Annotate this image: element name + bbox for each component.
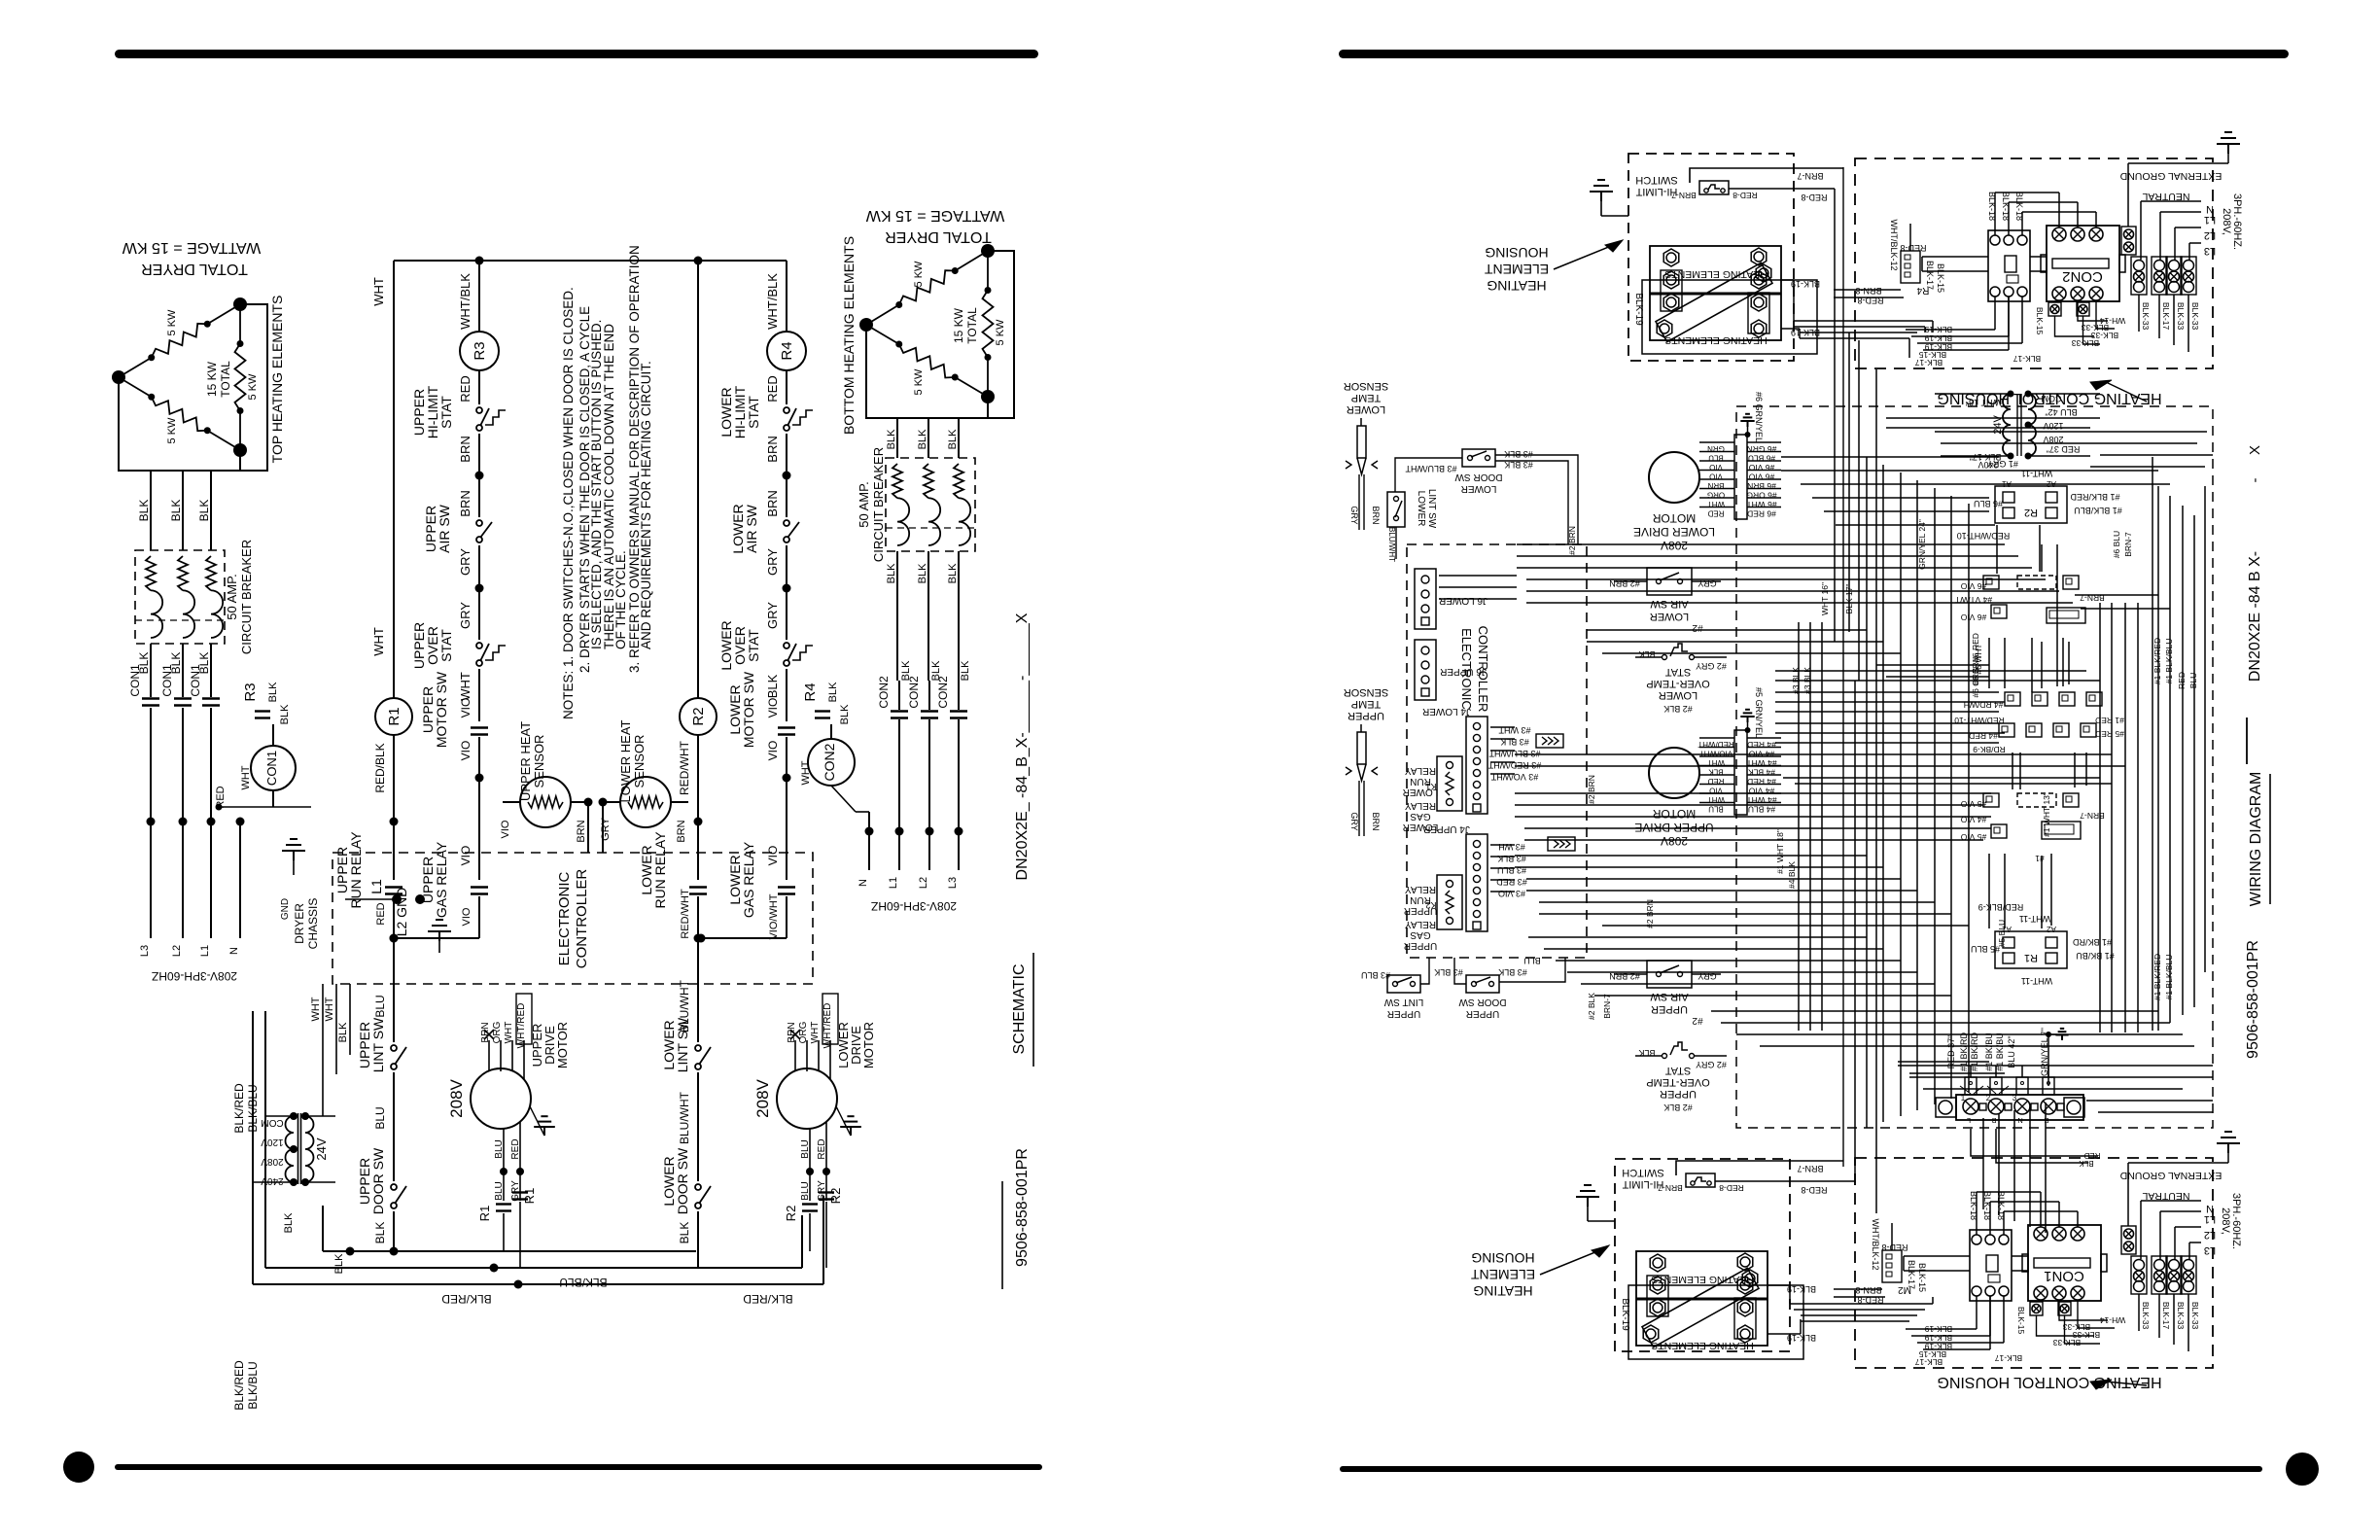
svg-text:BLK: BLK xyxy=(917,429,928,449)
svg-text:BLK-19: BLK-19 xyxy=(1925,1333,1953,1343)
svg-text:L1: L1 xyxy=(888,877,899,889)
svg-text:R1: R1 xyxy=(386,707,402,725)
svg-text:#4 BLK: #4 BLK xyxy=(1787,861,1797,889)
svg-text:BLK-18: BLK-18 xyxy=(1969,1191,1978,1220)
svg-text:RED: RED xyxy=(2083,1151,2100,1160)
svg-text:#4 VIO: #4 VIO xyxy=(1748,787,1774,796)
svg-text:WH-14: WH-14 xyxy=(2100,1315,2126,1325)
svg-text:#2 GRY: #2 GRY xyxy=(1696,1060,1727,1069)
svg-text:#6 RED: #6 RED xyxy=(1971,633,1980,662)
svg-text:#1 BLK/BLU: #1 BLK/BLU xyxy=(2164,955,2174,1000)
svg-text:GRY: GRY xyxy=(1349,812,1359,830)
svg-text:BRN: BRN xyxy=(1371,812,1381,830)
svg-text:BLK: BLK xyxy=(333,1253,345,1274)
svg-text:WHT-11: WHT-11 xyxy=(2021,976,2052,986)
svg-text:OVER-TEMP: OVER-TEMP xyxy=(1646,678,1709,689)
svg-text:#1 WHT 13": #1 WHT 13" xyxy=(2042,792,2051,837)
svg-text:#4 RED: #4 RED xyxy=(1747,740,1776,750)
svg-text:RED/BLK-9: RED/BLK-9 xyxy=(1978,902,2024,912)
svg-text:WATTAGE = 15 KW: WATTAGE = 15 KW xyxy=(865,207,1004,224)
svg-text:BLK: BLK xyxy=(839,704,851,724)
svg-text:RED-8: RED-8 xyxy=(1801,1185,1827,1195)
svg-text:AIR SW: AIR SW xyxy=(1650,598,1689,610)
svg-text:208V: 208V xyxy=(261,1156,284,1167)
svg-text:#1: #1 xyxy=(2035,854,2045,863)
svg-text:HI-LIMIT: HI-LIMIT xyxy=(1635,186,1677,197)
svg-text:208V,: 208V, xyxy=(2220,1207,2231,1235)
svg-text:BLK-17: BLK-17 xyxy=(2013,354,2042,364)
svg-text:DOOR SW: DOOR SW xyxy=(675,1147,690,1214)
svg-text:AIR SW: AIR SW xyxy=(437,504,452,553)
svg-text:N: N xyxy=(857,879,869,887)
svg-text:COM: COM xyxy=(261,1117,283,1128)
svg-text:CIRCUIT BREAKER: CIRCUIT BREAKER xyxy=(871,447,886,562)
svg-text:SENSOR: SENSOR xyxy=(1344,380,1389,392)
svg-text:VIO: VIO xyxy=(500,820,511,838)
svg-text:BRN-8: BRN-8 xyxy=(1855,286,1881,296)
svg-text:#6 BLU: #6 BLU xyxy=(1974,499,2003,508)
svg-text:BLK: BLK xyxy=(678,1222,691,1244)
svg-text:BLU: BLU xyxy=(494,1139,505,1158)
svg-text:#3 BLK: #3 BLK xyxy=(1504,449,1533,459)
svg-text:24V: 24V xyxy=(314,1137,329,1160)
svg-text:EXTERNAL GROUND: EXTERNAL GROUND xyxy=(2119,1170,2222,1181)
svg-text:UPPER: UPPER xyxy=(1651,1003,1688,1015)
svg-text:BRN: BRN xyxy=(576,820,587,842)
svg-text:BRN-7: BRN-7 xyxy=(1671,191,1697,200)
svg-text:NEUTRAL: NEUTRAL xyxy=(2142,191,2189,202)
svg-text:ELEMENT: ELEMENT xyxy=(1484,262,1549,277)
svg-text:RUN RELAY: RUN RELAY xyxy=(348,831,364,909)
svg-text:BLK: BLK xyxy=(2079,1159,2094,1168)
svg-text:#6 RED: #6 RED xyxy=(1747,509,1776,519)
svg-text:CON2: CON2 xyxy=(936,676,950,709)
svg-text:TEMP: TEMP xyxy=(1351,392,1382,403)
svg-text:TOTAL: TOTAL xyxy=(965,307,979,344)
svg-text:208V: 208V xyxy=(1661,834,1688,848)
svg-text:BLU: BLU xyxy=(1523,956,1541,965)
svg-text:BRN: BRN xyxy=(787,1022,797,1042)
svg-text:L1: L1 xyxy=(199,945,211,957)
svg-text:MOTOR: MOTOR xyxy=(555,1022,570,1068)
svg-text:R1: R1 xyxy=(2024,952,2038,963)
svg-text:UPPER HEAT: UPPER HEAT xyxy=(518,721,533,801)
svg-text:BLK-19: BLK-19 xyxy=(1633,293,1644,326)
svg-text:E: E xyxy=(2044,1116,2048,1125)
svg-text:BRN: BRN xyxy=(765,436,780,462)
svg-text:208V,: 208V, xyxy=(2221,208,2232,235)
svg-text:SWITCH: SWITCH xyxy=(1622,1167,1663,1178)
svg-text:TOTAL DRYER: TOTAL DRYER xyxy=(885,228,992,245)
svg-text:BLK-18: BLK-18 xyxy=(2014,192,2024,221)
svg-text:9506-858-001PR: 9506-858-001PR xyxy=(1014,1148,1031,1267)
svg-text:BLK: BLK xyxy=(137,500,151,522)
svg-text:#1 WHT 18": #1 WHT 18" xyxy=(1775,829,1785,874)
svg-text:DOOR SW: DOOR SW xyxy=(1454,472,1502,482)
svg-text:#3 BLK: #3 BLK xyxy=(1498,967,1527,977)
svg-text:STAT: STAT xyxy=(746,629,761,662)
svg-text:GAS: GAS xyxy=(1410,811,1430,822)
svg-text:UPPER: UPPER xyxy=(1387,1008,1420,1019)
svg-text:BRN-8: BRN-8 xyxy=(1855,1285,1881,1295)
svg-text:STAT: STAT xyxy=(746,396,761,429)
svg-text:LINT SW: LINT SW xyxy=(1383,997,1423,1007)
svg-text:N: N xyxy=(2206,1203,2214,1214)
svg-text:RELAY: RELAY xyxy=(1405,884,1436,894)
svg-text:LOWER: LOWER xyxy=(1650,611,1689,622)
svg-text:ORG: ORG xyxy=(492,1021,503,1043)
svg-text:#3 BLU/WHT: #3 BLU/WHT xyxy=(1405,464,1457,473)
svg-text:UPPER: UPPER xyxy=(1660,1088,1697,1100)
svg-text:HEATING CONTROL HOUSING: HEATING CONTROL HOUSING xyxy=(1937,1374,2161,1390)
svg-text:BRN-7: BRN-7 xyxy=(2080,811,2105,821)
svg-text:J6 UPPER: J6 UPPER xyxy=(1440,666,1487,677)
svg-text:BLK-18: BLK-18 xyxy=(1996,1191,2006,1220)
svg-text:#6 GRN: #6 GRN xyxy=(1747,444,1777,454)
svg-text:VIO: VIO xyxy=(459,698,472,718)
svg-text:VIO: VIO xyxy=(459,741,472,761)
svg-text:ELECTRONIC: ELECTRONIC xyxy=(556,871,573,965)
svg-text:#2 BLK: #2 BLK xyxy=(1663,704,1693,714)
svg-text:SWITCH: SWITCH xyxy=(1635,174,1677,186)
svg-text:BLK-33: BLK-33 xyxy=(2053,1338,2082,1347)
svg-text:GRN/YEL 24": GRN/YEL 24" xyxy=(1917,519,1927,570)
svg-text:BLK-15: BLK-15 xyxy=(1936,263,1945,293)
svg-text:AIR SW: AIR SW xyxy=(1650,991,1689,1002)
svg-text:BLK: BLK xyxy=(947,429,959,449)
svg-text:BLK: BLK xyxy=(337,1022,349,1042)
svg-text:CON1: CON1 xyxy=(264,751,279,786)
svg-text:#2: #2 xyxy=(1692,1015,1703,1026)
svg-text:LOWER: LOWER xyxy=(1403,822,1439,832)
svg-text:HI-LIMIT: HI-LIMIT xyxy=(1622,1178,1663,1190)
svg-text:BLK: BLK xyxy=(947,563,959,583)
svg-text:BLK: BLK xyxy=(279,704,291,724)
svg-text:5 KW: 5 KW xyxy=(995,319,1006,346)
svg-text:BLU: BLU xyxy=(1708,805,1724,814)
svg-text:CHASSIS: CHASSIS xyxy=(306,898,320,950)
svg-text:BLK-19: BLK-19 xyxy=(1620,1298,1630,1331)
svg-text:BLK: BLK xyxy=(267,682,279,702)
svg-text:UPPER: UPPER xyxy=(1466,1008,1499,1019)
svg-text:3PH.-60HZ.: 3PH.-60HZ. xyxy=(2231,193,2243,250)
svg-text:BLK-33: BLK-33 xyxy=(2141,1302,2151,1330)
svg-text:RED/WHT-10: RED/WHT-10 xyxy=(1957,531,2011,541)
svg-text:X: X xyxy=(2247,445,2263,455)
svg-text:BRN: BRN xyxy=(458,490,472,516)
svg-text:BLK-15: BLK-15 xyxy=(1917,1263,1927,1292)
svg-text:BLK-33: BLK-33 xyxy=(2072,338,2100,348)
svg-text:BLU: BLU xyxy=(373,1106,387,1129)
svg-text:VIO: VIO xyxy=(766,741,780,761)
svg-text:R2: R2 xyxy=(690,707,707,725)
svg-text:BLK-17: BLK-17 xyxy=(1925,261,1935,290)
svg-text:5 KW: 5 KW xyxy=(913,368,925,396)
svg-text:UPPER DRIVE: UPPER DRIVE xyxy=(1634,821,1713,834)
svg-text:R4: R4 xyxy=(802,682,819,701)
svg-text:MOTOR: MOTOR xyxy=(861,1022,876,1068)
svg-text:DOOR SW: DOOR SW xyxy=(1458,997,1506,1007)
svg-text:#4 BLK: #4 BLK xyxy=(1748,768,1775,778)
svg-text:J4 LOWER: J4 LOWER xyxy=(1422,706,1471,717)
svg-text:#3 BLK: #3 BLK xyxy=(1434,967,1463,977)
svg-text:GRY: GRY xyxy=(765,602,780,629)
svg-text:L2: L2 xyxy=(2204,229,2216,241)
svg-text:L3: L3 xyxy=(947,877,959,889)
svg-text:BLK-19: BLK-19 xyxy=(1791,279,1820,289)
svg-text:#3 WH: #3 WH xyxy=(1498,842,1525,852)
svg-text:WHT: WHT xyxy=(310,997,322,1021)
svg-text:CON2: CON2 xyxy=(822,743,837,781)
svg-text:AIR SW: AIR SW xyxy=(744,504,759,553)
svg-text:RED/BLK: RED/BLK xyxy=(373,743,387,792)
svg-text:BLK-33: BLK-33 xyxy=(2190,1302,2200,1330)
svg-text:BLK: BLK xyxy=(960,660,971,681)
svg-text:R2: R2 xyxy=(828,1188,843,1205)
svg-text:208V: 208V xyxy=(447,1078,466,1117)
svg-text:#6 ORG: #6 ORG xyxy=(1746,491,1776,501)
svg-text:CON1: CON1 xyxy=(128,664,142,697)
svg-text:#1 BK/BU: #1 BK/BU xyxy=(2076,951,2115,961)
svg-text:CON2: CON2 xyxy=(2062,268,2103,285)
svg-text:WHT/BLK: WHT/BLK xyxy=(458,273,472,330)
svg-text:#2 BRN: #2 BRN xyxy=(1567,526,1577,555)
svg-text:WHT/BLK-12: WHT/BLK-12 xyxy=(1871,1218,1880,1270)
svg-text:LOWER HEAT: LOWER HEAT xyxy=(618,719,633,802)
svg-text:BLK-15: BLK-15 xyxy=(2016,1307,2026,1335)
svg-text:UPPER: UPPER xyxy=(1347,710,1384,721)
svg-text:240V: 240V xyxy=(261,1175,284,1186)
svg-text:BLK: BLK xyxy=(886,429,897,449)
svg-text:RUN RELAY: RUN RELAY xyxy=(652,831,668,909)
svg-text:BLK-33: BLK-33 xyxy=(2176,302,2186,331)
svg-text:L1: L1 xyxy=(368,879,384,894)
svg-text:RED: RED xyxy=(510,1138,521,1159)
svg-text:BLK-33: BLK-33 xyxy=(2190,302,2200,331)
svg-text:RED-8: RED-8 xyxy=(1881,1242,1907,1252)
svg-text:UPPER: UPPER xyxy=(1404,940,1437,951)
svg-text:BLK-33: BLK-33 xyxy=(2141,302,2151,331)
svg-text:L3: L3 xyxy=(139,945,151,957)
svg-text:MOTOR: MOTOR xyxy=(1652,511,1696,525)
svg-text:L2: L2 xyxy=(918,877,929,889)
svg-text:BLK-19: BLK-19 xyxy=(1787,1284,1816,1294)
svg-text:#1 BLK/RED: #1 BLK/RED xyxy=(2152,954,2162,1000)
svg-text:5 KW: 5 KW xyxy=(166,309,178,336)
svg-text:HOUSING: HOUSING xyxy=(1471,1250,1534,1266)
svg-text:#6 GRN/YEL: #6 GRN/YEL xyxy=(1754,392,1764,442)
svg-text:VIO: VIO xyxy=(766,698,780,718)
svg-text:VIO/WHT: VIO/WHT xyxy=(768,893,780,939)
svg-text:CON1: CON1 xyxy=(189,664,202,697)
svg-text:VIO: VIO xyxy=(461,907,472,926)
svg-text:120V: 120V xyxy=(261,1137,284,1147)
svg-text:RED-8: RED-8 xyxy=(1801,192,1827,202)
svg-text:RUN: RUN xyxy=(1410,894,1431,905)
svg-text:208V: 208V xyxy=(753,1078,772,1117)
svg-text:120V: 120V xyxy=(2043,421,2063,431)
svg-text:BLK 17": BLK 17" xyxy=(1844,584,1854,614)
svg-text:RED: RED xyxy=(458,375,472,402)
svg-text:L: L xyxy=(1967,1116,1971,1125)
svg-text:R4: R4 xyxy=(779,341,795,360)
svg-text:LOWER: LOWER xyxy=(1416,491,1426,527)
svg-text:BRN-7: BRN-7 xyxy=(1602,994,1612,1019)
svg-text:#6 BLU: #6 BLU xyxy=(2112,531,2121,558)
svg-text:VIO: VIO xyxy=(459,846,472,866)
svg-text:DN20X2E -84 B X-: DN20X2E -84 B X- xyxy=(2247,551,2263,682)
svg-text:BLK/RED: BLK/RED xyxy=(232,1360,246,1411)
svg-text:DRYER: DRYER xyxy=(293,903,306,944)
svg-text:HEATING: HEATING xyxy=(1473,1283,1532,1299)
svg-text:STAT: STAT xyxy=(1664,1065,1691,1076)
svg-text:BLK-18: BLK-18 xyxy=(1987,192,1997,221)
svg-text:NEUTRAL: NEUTRAL xyxy=(2142,1190,2189,1202)
svg-text:RED: RED xyxy=(2177,672,2187,689)
svg-text:WHT/BLK: WHT/BLK xyxy=(765,273,780,330)
svg-text:#3 BLU: #3 BLU xyxy=(1361,970,1390,980)
svg-text:J6 LOWER: J6 LOWER xyxy=(1439,595,1487,606)
svg-text:GRY: GRY xyxy=(765,548,780,576)
svg-text:RED: RED xyxy=(817,1138,827,1159)
svg-text:L1: L1 xyxy=(2204,214,2216,226)
svg-text:RED/WHT: RED/WHT xyxy=(680,889,691,939)
svg-text:WHT: WHT xyxy=(240,765,252,789)
svg-text:#1 GRY: #1 GRY xyxy=(1987,459,2018,469)
svg-text:GRY: GRY xyxy=(600,818,612,841)
svg-text:MOTOR: MOTOR xyxy=(1652,807,1696,821)
svg-text:#2 BRN: #2 BRN xyxy=(1645,899,1655,928)
svg-text:WHT: WHT xyxy=(504,1022,514,1044)
svg-text:#6 BRN: #6 BRN xyxy=(1747,481,1776,491)
svg-text:#1 BK/RD: #1 BK/RD xyxy=(2072,937,2112,947)
svg-text:208V: 208V xyxy=(1661,539,1688,552)
svg-text:WHT/RED: WHT/RED xyxy=(516,1003,527,1049)
svg-text:WHT: WHT xyxy=(371,277,386,306)
svg-text:OF THE CYCLE.: OF THE CYCLE. xyxy=(613,550,628,649)
svg-text:#6 VIO: #6 VIO xyxy=(1748,463,1774,472)
svg-text:LOWER: LOWER xyxy=(1659,689,1697,701)
svg-text:BLU: BLU xyxy=(494,1181,505,1200)
svg-text:#1 BLK/RED: #1 BLK/RED xyxy=(2070,492,2120,502)
svg-text:RUN: RUN xyxy=(1410,776,1431,787)
svg-text:BLK: BLK xyxy=(886,563,897,583)
svg-text:R1: R1 xyxy=(477,1206,492,1222)
svg-text:#5 VIO: #5 VIO xyxy=(1960,799,1986,809)
svg-text:#4 BLU: #4 BLU xyxy=(1748,805,1775,815)
svg-text:#5 GRN/YEL: #5 GRN/YEL xyxy=(1754,687,1764,738)
svg-text:HOUSING: HOUSING xyxy=(1485,245,1548,261)
svg-text:TOTAL: TOTAL xyxy=(219,361,232,398)
svg-text:MOTOR SW: MOTOR SW xyxy=(434,671,449,748)
svg-text:L3: L3 xyxy=(2204,245,2216,257)
svg-text:#2 BLK: #2 BLK xyxy=(1663,1102,1693,1112)
svg-text:#6 WHT: #6 WHT xyxy=(1746,500,1776,509)
svg-text:L1: L1 xyxy=(2204,1213,2216,1225)
svg-text:TOP HEATING ELEMENTS: TOP HEATING ELEMENTS xyxy=(269,296,285,464)
svg-text:RED: RED xyxy=(765,375,780,402)
svg-text:5 KW: 5 KW xyxy=(913,261,925,288)
svg-text:#6 BLU: #6 BLU xyxy=(1748,454,1775,464)
svg-text:VIO: VIO xyxy=(766,846,780,866)
svg-text:RELAY: RELAY xyxy=(1405,919,1436,929)
svg-text:#2 GRY: #2 GRY xyxy=(1696,661,1727,671)
svg-text:#3 RED: #3 RED xyxy=(1496,877,1527,887)
svg-text:RED 37": RED 37" xyxy=(2047,444,2081,454)
svg-text:BLU: BLU xyxy=(800,1139,811,1158)
svg-text:3PH.-60HZ.: 3PH.-60HZ. xyxy=(2230,1193,2242,1249)
svg-text:RED: RED xyxy=(375,902,387,925)
svg-text:BLU 42": BLU 42" xyxy=(2007,1035,2016,1067)
svg-text:208V-3PH-60HZ: 208V-3PH-60HZ xyxy=(871,899,957,913)
svg-text:LINT SW: LINT SW xyxy=(675,1017,690,1072)
svg-text:15 KW: 15 KW xyxy=(205,361,219,397)
svg-text:B: B xyxy=(1991,1116,1996,1125)
svg-text:WHT-11: WHT-11 xyxy=(2019,914,2050,924)
svg-text:BLK-18: BLK-18 xyxy=(2001,192,2011,221)
svg-text:BLU 42": BLU 42" xyxy=(2045,407,2077,417)
svg-text:#6 VIO: #6 VIO xyxy=(1960,612,1986,622)
svg-text:WHT: WHT xyxy=(810,1022,821,1044)
svg-text:WHT: WHT xyxy=(371,627,386,656)
svg-text:BLU/WHT: BLU/WHT xyxy=(1387,527,1396,562)
svg-text:EXTERNAL GROUND: EXTERNAL GROUND xyxy=(2119,170,2222,182)
svg-text:GRY: GRY xyxy=(1349,506,1359,524)
svg-text:GRY: GRY xyxy=(458,602,472,629)
svg-text:CON1: CON1 xyxy=(160,664,174,697)
svg-text:BLK-15: BLK-15 xyxy=(2035,307,2045,335)
svg-text:BLK-19: BLK-19 xyxy=(1925,333,1953,343)
svg-text:R2: R2 xyxy=(2024,507,2038,518)
svg-text:BLK-17: BLK-17 xyxy=(1915,358,1943,367)
svg-text:TOTAL DRYER: TOTAL DRYER xyxy=(141,261,248,277)
svg-text:BLK/BLU: BLK/BLU xyxy=(559,1276,607,1289)
svg-text:OVER-TEMP: OVER-TEMP xyxy=(1646,1076,1709,1088)
svg-text:#6 VIO: #6 VIO xyxy=(1960,581,1986,591)
svg-text:LOWER: LOWER xyxy=(1347,403,1385,415)
svg-text:RED/WHT: RED/WHT xyxy=(678,740,691,795)
svg-text:GND: GND xyxy=(280,898,291,920)
svg-text:STAT: STAT xyxy=(438,629,454,662)
svg-text:BLK/RED: BLK/RED xyxy=(441,1292,492,1306)
svg-text:WHT/RED: WHT/RED xyxy=(822,1003,833,1049)
svg-text:N: N xyxy=(2017,1116,2022,1125)
svg-text:LINT SW: LINT SW xyxy=(1426,489,1437,529)
svg-text:L2: L2 xyxy=(2204,1229,2216,1241)
svg-text:#1 BLK/BLU: #1 BLK/BLU xyxy=(2164,639,2174,684)
svg-text:ELEMENT: ELEMENT xyxy=(1470,1267,1535,1282)
svg-text:#4 RED: #4 RED xyxy=(1747,777,1776,787)
svg-text:BRN: BRN xyxy=(480,1022,491,1042)
svg-text:ORG: ORG xyxy=(798,1021,809,1043)
svg-text:BLK-19: BLK-19 xyxy=(1925,1324,1953,1334)
svg-text:BLK-17: BLK-17 xyxy=(2161,1302,2171,1330)
svg-text:A2: A2 xyxy=(2047,925,2056,933)
svg-text:LOWER: LOWER xyxy=(1403,787,1439,797)
svg-text:WHT: WHT xyxy=(800,760,812,785)
svg-text:R3: R3 xyxy=(472,341,488,360)
svg-text:BLK-33: BLK-33 xyxy=(2176,1302,2186,1330)
svg-text:BLU: BLU xyxy=(2188,673,2198,689)
svg-text:BLK/RED: BLK/RED xyxy=(743,1292,793,1306)
svg-text:LOWER DRIVE: LOWER DRIVE xyxy=(1633,525,1715,539)
svg-text:DOOR SW: DOOR SW xyxy=(370,1147,386,1214)
svg-text:SCHEMATIC: SCHEMATIC xyxy=(1011,963,1028,1054)
svg-text:HEATING: HEATING xyxy=(1487,278,1546,294)
svg-text:208V-3PH-60HZ: 208V-3PH-60HZ xyxy=(152,969,237,983)
svg-text:CON2: CON2 xyxy=(907,676,921,709)
svg-text:BLK/RED: BLK/RED xyxy=(232,1083,246,1134)
